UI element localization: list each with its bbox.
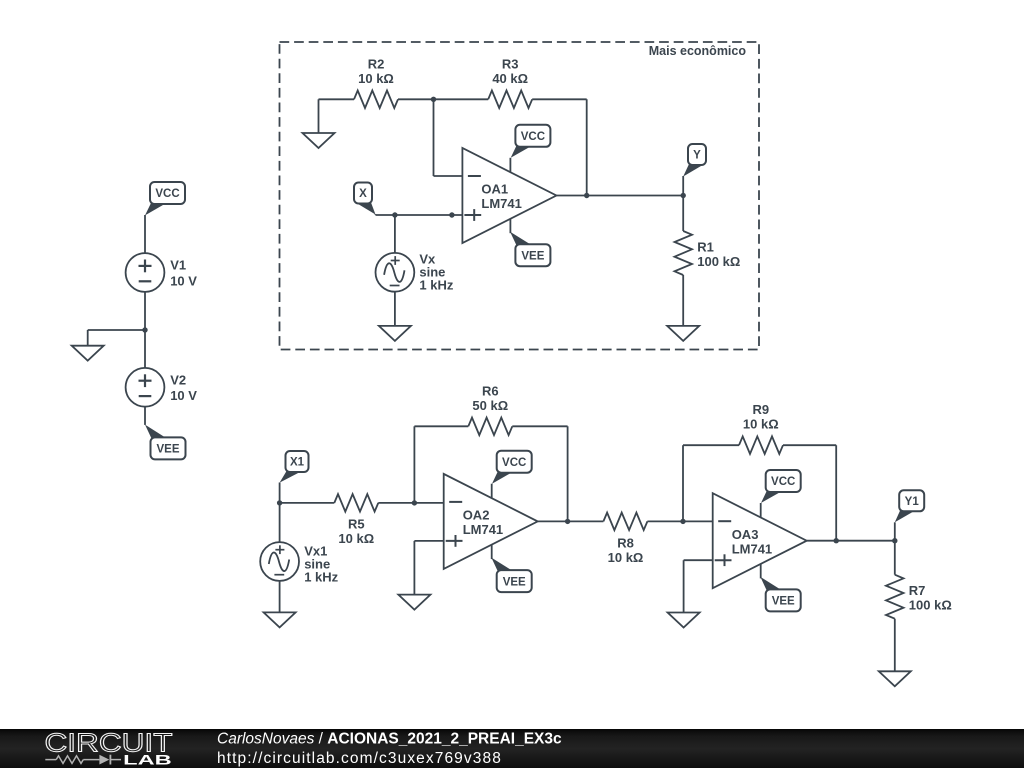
svg-text:LAB: LAB bbox=[123, 753, 172, 768]
svg-text:V2: V2 bbox=[170, 373, 186, 388]
svg-text:1 kHz: 1 kHz bbox=[419, 278, 453, 293]
svg-text:R1: R1 bbox=[697, 239, 714, 254]
svg-text:R8: R8 bbox=[617, 535, 634, 550]
svg-text:VCC: VCC bbox=[771, 476, 795, 488]
svg-text:X: X bbox=[359, 188, 367, 200]
svg-text:OA2: OA2 bbox=[463, 508, 490, 523]
svg-text:10 kΩ: 10 kΩ bbox=[358, 71, 394, 86]
svg-text:100 kΩ: 100 kΩ bbox=[697, 254, 740, 269]
svg-text:VEE: VEE bbox=[503, 576, 526, 588]
svg-text:LM741: LM741 bbox=[481, 196, 521, 211]
svg-text:VEE: VEE bbox=[772, 596, 795, 608]
svg-text:http://circuitlab.com/c3uxex76: http://circuitlab.com/c3uxex769v388 bbox=[217, 750, 502, 767]
svg-text:10 kΩ: 10 kΩ bbox=[338, 531, 374, 546]
svg-text:OA1: OA1 bbox=[481, 182, 508, 197]
svg-text:10 kΩ: 10 kΩ bbox=[743, 417, 779, 432]
svg-text:R2: R2 bbox=[368, 56, 385, 71]
svg-text:X1: X1 bbox=[290, 457, 305, 469]
svg-text:R3: R3 bbox=[502, 56, 519, 71]
svg-text:1 kHz: 1 kHz bbox=[304, 570, 338, 585]
svg-text:V1: V1 bbox=[170, 258, 186, 273]
svg-text:VCC: VCC bbox=[502, 457, 526, 469]
svg-text:VEE: VEE bbox=[156, 444, 179, 456]
svg-text:R6: R6 bbox=[482, 383, 499, 398]
svg-text:Y1: Y1 bbox=[905, 496, 920, 508]
svg-text:50 kΩ: 50 kΩ bbox=[472, 398, 508, 413]
svg-text:LM741: LM741 bbox=[732, 541, 772, 556]
svg-text:Y: Y bbox=[693, 150, 701, 162]
svg-text:LM741: LM741 bbox=[463, 522, 503, 537]
svg-text:10 V: 10 V bbox=[170, 273, 197, 288]
svg-text:R9: R9 bbox=[752, 402, 769, 417]
svg-text:10 kΩ: 10 kΩ bbox=[608, 550, 644, 565]
svg-text:100 kΩ: 100 kΩ bbox=[909, 598, 952, 613]
svg-text:CarlosNovaes / ACIONAS_2021_2_: CarlosNovaes / ACIONAS_2021_2_PREAI_EX3c bbox=[217, 730, 562, 747]
svg-text:VEE: VEE bbox=[521, 250, 544, 262]
svg-text:10 V: 10 V bbox=[170, 388, 197, 403]
svg-text:R5: R5 bbox=[348, 517, 365, 532]
svg-text:Mais econômico: Mais econômico bbox=[649, 44, 747, 58]
svg-text:VCC: VCC bbox=[521, 131, 545, 143]
svg-text:40 kΩ: 40 kΩ bbox=[492, 71, 528, 86]
svg-text:OA3: OA3 bbox=[732, 527, 759, 542]
svg-text:VCC: VCC bbox=[155, 188, 179, 200]
svg-text:R7: R7 bbox=[909, 583, 926, 598]
